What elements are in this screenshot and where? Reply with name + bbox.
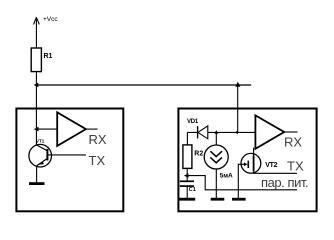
wire top rail bbox=[36, 84, 251, 86]
wire VT2 gate lead bbox=[238, 164, 241, 198]
wire supply drop bbox=[237, 85, 239, 132]
wire VT2 drain lead bbox=[253, 148, 255, 156]
node junction J3 bbox=[34, 127, 39, 132]
wire current source bottom lead bbox=[215, 169, 217, 198]
wire gate feed bbox=[187, 176, 297, 190]
wire RX1 input bbox=[37, 128, 58, 130]
op-amp RX2 bbox=[255, 115, 284, 148]
node junction J6 bbox=[184, 173, 189, 177]
svg-text:TX: TX bbox=[89, 153, 106, 168]
current source I1 bbox=[204, 145, 228, 169]
node +Vcc bbox=[34, 17, 40, 48]
svg-text:R1: R1 bbox=[44, 53, 53, 60]
svg-text:VT2: VT2 bbox=[265, 162, 277, 169]
op-amp RX1 bbox=[57, 112, 86, 146]
left device box bbox=[16, 109, 123, 212]
wire R2 bottom lead bbox=[186, 168, 188, 181]
node junction J1 bbox=[34, 83, 39, 88]
ground VT2 bbox=[232, 198, 246, 201]
svg-text:пар. пит.: пар. пит. bbox=[261, 175, 308, 190]
wire net line y132 bbox=[187, 131, 255, 133]
svg-text:VT1: VT1 bbox=[36, 139, 45, 144]
wire R2 top lead bbox=[186, 132, 188, 145]
wire R1 bottom to transistor collector bbox=[35, 72, 37, 146]
node junction J2 bbox=[235, 82, 240, 87]
right device box bbox=[178, 109, 316, 212]
svg-text:VD1: VD1 bbox=[187, 119, 199, 125]
wire RX2 output bbox=[284, 131, 297, 133]
resistor R2 bbox=[183, 145, 192, 169]
svg-text:RX: RX bbox=[284, 135, 302, 150]
resistor R1 bbox=[31, 48, 41, 72]
ground current source bbox=[211, 198, 225, 201]
wire RX1 output bbox=[86, 128, 98, 130]
wire TX1 base bbox=[48, 154, 86, 156]
wire VT1 emitter bbox=[36, 166, 38, 183]
svg-text:C1: C1 bbox=[189, 187, 196, 193]
wire VT2 source TX line bbox=[254, 171, 297, 173]
wire current source top lead bbox=[215, 132, 217, 145]
node junction J5 bbox=[235, 130, 238, 134]
svg-text:RX: RX bbox=[89, 132, 107, 147]
ground C1 bbox=[178, 198, 195, 201]
node junction J4 bbox=[214, 130, 218, 134]
svg-text:TX: TX bbox=[287, 158, 304, 173]
transistor VT1 bbox=[29, 144, 52, 167]
transistor VT2 bbox=[241, 153, 261, 173]
capacitor C1 bbox=[180, 181, 194, 186]
ground left bbox=[29, 182, 45, 185]
svg-text:5мА: 5мА bbox=[220, 173, 233, 180]
wire C1 bottom lead bbox=[186, 186, 188, 198]
diode VD1 bbox=[198, 126, 208, 139]
svg-text:+Vcc: +Vcc bbox=[43, 16, 58, 23]
svg-text:R2: R2 bbox=[194, 150, 203, 157]
